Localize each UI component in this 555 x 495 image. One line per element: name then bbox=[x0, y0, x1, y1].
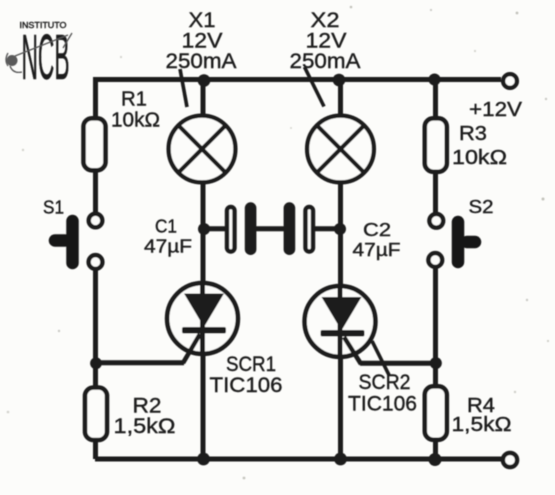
junction node C1 bbox=[198, 223, 210, 235]
lamp X2 bbox=[307, 116, 374, 183]
svg-text:47µF: 47µF bbox=[144, 237, 192, 257]
wire top rail bbox=[95, 77, 501, 82]
SCR1 TIC106 bbox=[167, 283, 238, 363]
wire bottom rail bbox=[95, 457, 502, 462]
wire left rail lower (S1 to bottom) bbox=[93, 269, 98, 459]
junction node gate2 rail bbox=[430, 357, 442, 369]
pointer line X1 label bbox=[180, 69, 187, 107]
wire right rail upper (R3 branch to S2) bbox=[433, 80, 438, 214]
resistor R4 bbox=[425, 386, 447, 440]
svg-text:S1: S1 bbox=[43, 197, 64, 218]
label R3 bbox=[452, 123, 507, 169]
svg-text:250mA: 250mA bbox=[166, 50, 237, 73]
pushbutton S1 bbox=[55, 214, 102, 269]
SCR2 TIC106 bbox=[305, 286, 376, 364]
svg-text:C2: C2 bbox=[363, 220, 391, 240]
junction node X1 top bbox=[198, 74, 211, 87]
wire node1 to C1 bbox=[203, 226, 226, 231]
junction node X2 bottom bbox=[334, 453, 347, 466]
logo Instituto NCB bbox=[6, 21, 72, 93]
svg-text:SCR1: SCR1 bbox=[226, 353, 276, 376]
junction node X2 top bbox=[333, 74, 346, 87]
pushbutton S2 bbox=[428, 214, 475, 267]
svg-text:1,5kΩ: 1,5kΩ bbox=[114, 415, 176, 438]
svg-text:R3: R3 bbox=[459, 123, 487, 145]
capacitor C1 plates bbox=[227, 202, 256, 255]
svg-text:10kΩ: 10kΩ bbox=[111, 110, 160, 132]
terminal +12V bbox=[503, 74, 517, 88]
svg-text:R1: R1 bbox=[121, 89, 147, 111]
pointer line SCR2 label bbox=[372, 341, 389, 375]
junction node R3 top bbox=[429, 74, 441, 86]
wire SCR2 gate to right rail bbox=[360, 361, 436, 366]
svg-text:47µF: 47µF bbox=[353, 240, 401, 260]
resistor R2 bbox=[85, 388, 107, 441]
pointer line X2 label bbox=[305, 67, 325, 107]
junction node SCR1 cathode bottom bbox=[197, 453, 210, 466]
terminal bottom (0V) bbox=[503, 453, 517, 467]
svg-text:C1: C1 bbox=[155, 217, 177, 237]
svg-text:1,5kΩ: 1,5kΩ bbox=[452, 414, 512, 436]
resistor R1 bbox=[84, 118, 106, 170]
label X2 bbox=[290, 9, 361, 73]
label R2 bbox=[114, 395, 176, 439]
capacitor C2 plates bbox=[284, 202, 313, 255]
svg-text:10kΩ: 10kΩ bbox=[452, 147, 507, 169]
wire X2 branch (anode chain) bbox=[338, 80, 343, 460]
svg-text:NCB: NCB bbox=[22, 21, 70, 93]
svg-text:S2: S2 bbox=[469, 196, 494, 217]
lamp X1 bbox=[169, 116, 236, 183]
label X1 bbox=[166, 9, 237, 73]
wire left rail upper (corner to S1) bbox=[93, 77, 98, 213]
label SCR1 bbox=[210, 353, 283, 397]
junction node C2 bbox=[334, 223, 346, 235]
label C1 bbox=[144, 217, 192, 257]
label R4 bbox=[452, 395, 512, 436]
junction node R4 bottom bbox=[429, 453, 442, 466]
wire SCR1 gate to left rail bbox=[95, 360, 184, 365]
label SCR2 bbox=[348, 371, 417, 416]
svg-text:250mA: 250mA bbox=[290, 50, 361, 73]
wire X1 branch (anode chain) bbox=[201, 80, 206, 460]
resistor R3 bbox=[425, 118, 447, 172]
svg-text:TIC106: TIC106 bbox=[210, 374, 283, 397]
svg-text:TIC106: TIC106 bbox=[348, 393, 417, 416]
label C2 bbox=[353, 220, 401, 260]
wire C2 to node2 bbox=[314, 226, 338, 231]
svg-text:SCR2: SCR2 bbox=[359, 371, 411, 394]
svg-text:+12V: +12V bbox=[469, 99, 523, 121]
label R1 bbox=[111, 89, 160, 132]
wire C1 to C2 link bbox=[256, 226, 284, 231]
wire right rail lower (S2 to bottom) bbox=[433, 268, 438, 459]
junction node gate1 rail bbox=[90, 357, 102, 369]
